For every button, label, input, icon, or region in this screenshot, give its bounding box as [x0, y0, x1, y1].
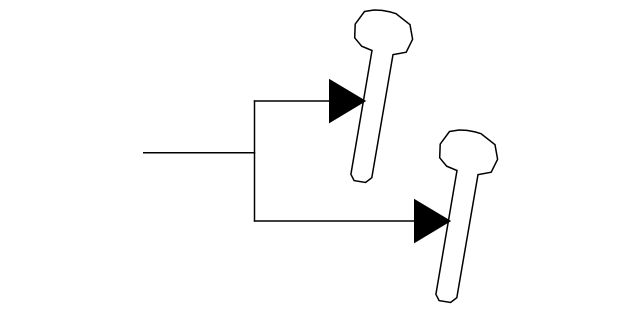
wire bottom branch: [254, 220, 415, 222]
wire input (left horizontal lead): [143, 152, 255, 154]
arrow head A1 (filled triangle, top branch): [329, 79, 366, 124]
pin symbol P2 (push-pin outline, lower): [436, 130, 498, 303]
pin symbol P1 (push-pin outline, upper): [351, 10, 413, 183]
arrow head A2 (filled triangle, bottom branch): [414, 199, 451, 244]
wire top branch: [254, 100, 330, 102]
wire vertical bus (branch riser): [254, 100, 256, 221]
